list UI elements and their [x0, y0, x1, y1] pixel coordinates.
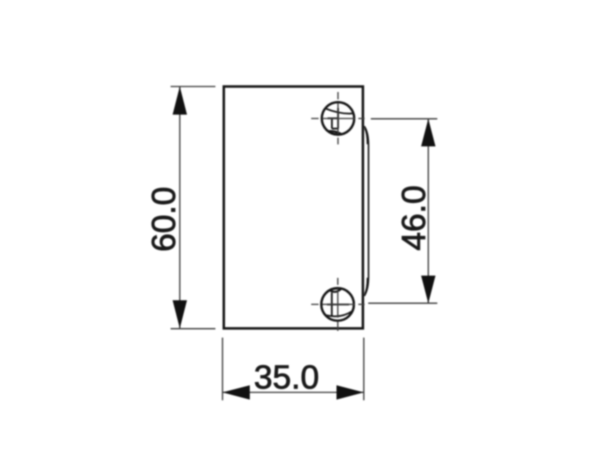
hole H1 bottom crescent arc: [328, 131, 341, 134]
svg-text:35.0: 35.0: [254, 359, 319, 396]
hole H2 screw slot vertical line: [331, 293, 333, 316]
spring clip lens on right edge: [364, 126, 368, 296]
dim 35.0 left arrow: [223, 385, 250, 399]
hole H1 screw slot vertical line: [337, 108, 339, 129]
hole H2 vertical centerline: [337, 278, 339, 331]
hole H1 screw slot horizontal line: [328, 117, 339, 119]
dim 35.0 right arrow: [337, 385, 364, 399]
hole H2 screw slot horizontal line: [327, 304, 349, 306]
dim 35.0 right extension line: [363, 338, 365, 401]
spring clip inner tip line top: [365, 128, 368, 144]
hole H1 top crescent arc: [325, 102, 353, 113]
hole H1 screw slot bottom horizontal line: [332, 128, 338, 130]
hole H1 screw slot left vertical line: [331, 119, 333, 129]
hole H2 (bottom) circle: [321, 288, 354, 321]
spring clip inner tip line bottom: [365, 278, 368, 294]
hole H1 horizontal centerline: [311, 118, 364, 120]
hole H1 (top) circle: [322, 102, 354, 134]
dim 46.0 top arrow: [421, 119, 435, 147]
dim 35.0 dimension line: [223, 391, 364, 393]
dim 46.0 dimension line: [427, 119, 429, 303]
dim 46.0 top extension line: [371, 118, 438, 120]
dim 60.0 top extension line: [171, 86, 216, 88]
dim 60.0 top arrow: [173, 87, 187, 115]
hole H1 vertical centerline: [337, 92, 339, 144]
dim 60.0 bottom arrow: [173, 300, 187, 328]
svg-text:60.0: 60.0: [146, 187, 183, 252]
hole H2 top crescent arc: [330, 289, 341, 292]
hole H2 horizontal centerline: [311, 303, 364, 305]
dim 46.0 bottom arrow: [421, 276, 435, 304]
dim 60.0 bottom extension line: [171, 328, 216, 330]
part outline rectangle: [224, 87, 363, 329]
dim 60.0 dimension line: [179, 87, 181, 329]
dim 35.0 left extension line: [222, 338, 224, 401]
svg-text:46.0: 46.0: [396, 185, 433, 250]
dim 46.0 bottom extension line: [368, 302, 437, 304]
hole H2 bottom crescent arc: [325, 311, 352, 321]
